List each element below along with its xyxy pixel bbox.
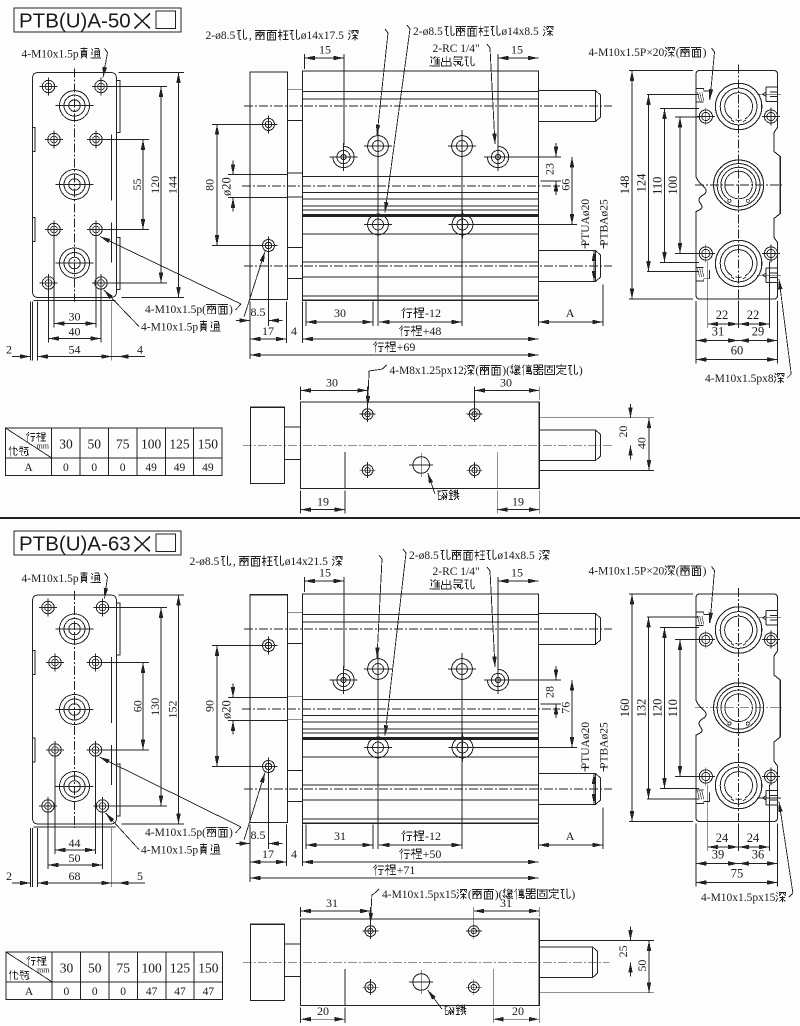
dim 17 bbox=[250, 338, 287, 340]
left edge tapped-hole notch bottom bbox=[696, 793, 709, 804]
svg-text:66: 66 bbox=[559, 179, 573, 191]
top rod centerline bbox=[244, 628, 612, 630]
dimension 144 bbox=[178, 73, 180, 298]
bottom rod centerline bbox=[244, 788, 612, 790]
svg-text:ø14x8.5: ø14x8.5 bbox=[497, 550, 535, 562]
dim 31 bbox=[305, 824, 307, 849]
svg-text:): ) bbox=[579, 365, 583, 377]
svg-text:2-ø8.5: 2-ø8.5 bbox=[413, 26, 443, 38]
svg-text:15: 15 bbox=[511, 43, 523, 57]
dimension 40 bbox=[49, 338, 102, 340]
svg-text:0: 0 bbox=[63, 462, 69, 474]
rod dia labels PTUA/PTBA bbox=[580, 199, 592, 247]
left edge tapped-hole notch top bbox=[696, 612, 709, 623]
dim A bbox=[539, 321, 604, 323]
bolt holes row3 bbox=[49, 744, 61, 756]
svg-text:0: 0 bbox=[120, 462, 126, 474]
svg-text:5: 5 bbox=[137, 869, 143, 883]
dim 15 left bbox=[304, 54, 306, 69]
cylinder body side view outline bbox=[303, 594, 539, 823]
svg-text:A: A bbox=[24, 462, 33, 474]
svg-text:24: 24 bbox=[747, 831, 760, 845]
svg-text:0: 0 bbox=[120, 986, 126, 998]
end view outline bbox=[696, 594, 780, 822]
dim 28 bbox=[508, 679, 561, 681]
cylinder body side view outline bbox=[303, 71, 539, 300]
body horizontal lines bbox=[303, 91, 539, 93]
stroke code table bbox=[6, 952, 223, 999]
bottom piston rod bbox=[539, 774, 601, 805]
plan view neck bbox=[285, 944, 301, 977]
bottom extension lines bbox=[53, 239, 55, 328]
bore top bbox=[715, 83, 761, 129]
dimension 60 bbox=[142, 663, 144, 751]
bottom dims of end view bbox=[707, 262, 709, 329]
svg-text:4-M10x1.5p(: 4-M10x1.5p( bbox=[145, 827, 206, 839]
plate bottom second edge bbox=[34, 826, 116, 828]
svg-text:124: 124 bbox=[634, 173, 648, 193]
dim 66 bbox=[473, 224, 578, 226]
right dims 20/40 or 25/50 bbox=[539, 940, 654, 942]
hole row1 counterbored holes bbox=[333, 669, 354, 690]
svg-text:PTBAø25: PTBAø25 bbox=[599, 722, 611, 769]
dimension 130 bbox=[160, 608, 162, 807]
dim A bbox=[539, 844, 604, 846]
svg-text:150: 150 bbox=[198, 961, 219, 976]
svg-text:23: 23 bbox=[543, 163, 557, 175]
stroke code table bbox=[6, 428, 223, 475]
svg-text:60: 60 bbox=[731, 344, 744, 358]
svg-text:ø14x8.5: ø14x8.5 bbox=[501, 26, 539, 38]
bolt holes row3 bbox=[48, 223, 60, 235]
svg-text:30: 30 bbox=[334, 306, 346, 320]
dim 行程+50 bbox=[303, 861, 539, 863]
stroke marker lines bbox=[344, 452, 346, 489]
dimension 4 right lip bbox=[118, 356, 145, 358]
bore bottom bbox=[715, 762, 761, 808]
hole row2 holes bbox=[368, 737, 389, 758]
vertical dims 148/124/110/100 bbox=[629, 593, 693, 595]
svg-text:15: 15 bbox=[511, 566, 523, 580]
dimension 54 bbox=[38, 356, 112, 358]
svg-text:ø20: ø20 bbox=[219, 177, 233, 196]
title multiplication sign bbox=[135, 537, 151, 552]
dim 15 right bbox=[498, 580, 539, 582]
dimension 2 left lip bbox=[12, 356, 31, 358]
svg-text:17: 17 bbox=[262, 324, 274, 338]
plan view rod bbox=[539, 430, 600, 461]
svg-text:4-M10x1.5p(: 4-M10x1.5p( bbox=[145, 304, 206, 316]
svg-text:40: 40 bbox=[635, 437, 649, 449]
svg-text:A: A bbox=[25, 986, 34, 998]
svg-text:50: 50 bbox=[88, 961, 102, 976]
flange bolt holes bbox=[263, 118, 275, 130]
plate right-edge inner tabs bbox=[111, 657, 113, 723]
svg-text:0: 0 bbox=[92, 986, 98, 998]
svg-text:30: 30 bbox=[59, 437, 73, 452]
plan view neck bbox=[285, 427, 301, 460]
right edge tapped slot top bbox=[766, 610, 778, 612]
guide rail thick line bbox=[303, 214, 539, 217]
guide rod stubs between flange and body bbox=[288, 613, 303, 644]
svg-text:8.5: 8.5 bbox=[251, 828, 266, 842]
svg-text:75: 75 bbox=[731, 867, 744, 881]
svg-text:19: 19 bbox=[512, 495, 524, 509]
dimension 44 bbox=[55, 849, 96, 851]
svg-text:): ) bbox=[229, 304, 233, 316]
dim dia20 piston rod bbox=[232, 161, 234, 175]
corner tapped holes bbox=[699, 633, 712, 646]
dimension 68 bbox=[38, 882, 112, 884]
svg-text:120: 120 bbox=[148, 176, 162, 194]
svg-text:2-RC 1/4": 2-RC 1/4" bbox=[433, 43, 480, 55]
dimension 120 bbox=[160, 87, 162, 284]
bottom dims 19/19 or 20/20 bbox=[300, 491, 302, 514]
svg-text:+48: +48 bbox=[423, 324, 442, 338]
body horizontal lines bbox=[303, 614, 539, 616]
guide rail thick line bbox=[303, 737, 539, 740]
svg-text:ø14x17.5: ø14x17.5 bbox=[301, 30, 344, 42]
svg-text:25: 25 bbox=[616, 945, 630, 957]
extension lines for vertical dims bbox=[103, 139, 149, 141]
svg-text:2-ø8.5: 2-ø8.5 bbox=[206, 30, 236, 42]
svg-text:30: 30 bbox=[500, 375, 512, 389]
svg-text:2-ø8.5: 2-ø8.5 bbox=[409, 550, 439, 562]
svg-text:125: 125 bbox=[169, 437, 190, 452]
plan view body bbox=[301, 919, 540, 1006]
dimension 5 right lip bbox=[118, 882, 145, 884]
svg-text:20: 20 bbox=[317, 1004, 329, 1018]
svg-text:30: 30 bbox=[326, 375, 338, 389]
svg-text:+50: +50 bbox=[423, 847, 442, 861]
bore middle bbox=[714, 160, 764, 210]
vertical centerline bbox=[738, 65, 740, 306]
magnet label bbox=[437, 490, 447, 499]
svg-text:mm: mm bbox=[37, 442, 50, 451]
svg-text:4-M10x1.5p: 4-M10x1.5p bbox=[22, 573, 79, 585]
svg-text:31: 31 bbox=[334, 829, 346, 843]
svg-text:47: 47 bbox=[146, 986, 158, 998]
svg-text:4-M10x1.5p: 4-M10x1.5p bbox=[141, 845, 198, 857]
dim 17 bbox=[250, 861, 287, 863]
svg-text:152: 152 bbox=[166, 701, 180, 719]
main centerline bbox=[242, 185, 560, 187]
table diagonal bbox=[6, 952, 52, 982]
svg-text:144: 144 bbox=[166, 176, 180, 194]
dim 行程+71 bbox=[250, 877, 539, 879]
svg-text:50: 50 bbox=[88, 437, 102, 452]
magnet hole bbox=[413, 457, 430, 474]
svg-text:90: 90 bbox=[203, 700, 217, 712]
svg-text:4-M10x1.5P×20: 4-M10x1.5P×20 bbox=[589, 47, 665, 59]
plan view centerline bbox=[243, 961, 610, 963]
bore bottom bbox=[715, 240, 761, 286]
svg-text:100: 100 bbox=[142, 961, 163, 976]
svg-text:15: 15 bbox=[319, 43, 331, 57]
left-edge notches bbox=[33, 128, 36, 152]
title box bbox=[14, 8, 181, 32]
svg-text:): ) bbox=[229, 827, 233, 839]
top dims 30/30 or 31/31 bbox=[300, 386, 302, 400]
svg-text:110: 110 bbox=[650, 177, 664, 195]
svg-text:(: ( bbox=[676, 566, 680, 578]
magnet hole bbox=[413, 974, 430, 991]
vertical dims 148/124/110/100 bbox=[629, 70, 693, 72]
svg-text:130: 130 bbox=[148, 698, 162, 716]
svg-text:(: ( bbox=[676, 47, 680, 59]
svg-text:+69: +69 bbox=[397, 340, 416, 354]
big guide-rod holes bbox=[60, 91, 90, 121]
svg-text:(: ( bbox=[468, 889, 472, 901]
bottom dims of end view bbox=[707, 785, 709, 852]
svg-text:4-M10x1.5P×20: 4-M10x1.5P×20 bbox=[589, 566, 665, 578]
vertical centerline bbox=[738, 588, 740, 828]
svg-text:4-M8x1.25px12: 4-M8x1.25px12 bbox=[390, 365, 465, 377]
title box bbox=[14, 531, 181, 555]
top piston rod bbox=[539, 614, 601, 645]
end flange plate bbox=[250, 72, 288, 300]
svg-text:4-M10x1.5px15: 4-M10x1.5px15 bbox=[701, 892, 776, 904]
svg-text:68: 68 bbox=[69, 869, 81, 883]
bottom dims 19/19 or 20/20 bbox=[300, 1008, 302, 1024]
svg-text:76: 76 bbox=[559, 702, 573, 714]
hole center extension lines bbox=[377, 653, 379, 849]
svg-text:)(: )( bbox=[495, 889, 503, 901]
bolt holes row2 bbox=[48, 133, 60, 145]
hole row1 plain holes bbox=[368, 136, 389, 157]
dim 8.5 bbox=[236, 843, 250, 845]
stroke marker lines bbox=[344, 969, 346, 1006]
dim stroke-12 bbox=[379, 844, 462, 846]
bottom extension lines bbox=[54, 759, 56, 854]
divider line bbox=[0, 517, 800, 519]
plan view centerline bbox=[243, 444, 612, 446]
svg-text:110: 110 bbox=[666, 699, 680, 717]
front-plate view outline bbox=[33, 73, 117, 298]
bottom piston rod bbox=[539, 251, 601, 282]
svg-text:30: 30 bbox=[69, 310, 81, 324]
main centerline bbox=[242, 708, 560, 710]
svg-text:100: 100 bbox=[141, 437, 162, 452]
svg-text:PTUAø20: PTUAø20 bbox=[580, 722, 592, 770]
title blank square bbox=[156, 11, 176, 29]
svg-text:54: 54 bbox=[69, 343, 81, 357]
table diagonal bbox=[6, 428, 52, 458]
right edge tapped slot top bbox=[766, 86, 778, 88]
svg-text:60: 60 bbox=[130, 700, 144, 712]
guide rod stubs between flange and body bbox=[288, 90, 303, 121]
front-plate view outline bbox=[33, 595, 117, 824]
svg-text:75: 75 bbox=[116, 437, 130, 452]
svg-text:39: 39 bbox=[712, 848, 725, 862]
svg-text:2-RC 1/4": 2-RC 1/4" bbox=[433, 566, 480, 578]
svg-text:47: 47 bbox=[174, 986, 186, 998]
bottom dim extension lines bbox=[249, 824, 251, 882]
svg-text:A: A bbox=[566, 306, 575, 320]
plan view body bbox=[301, 402, 540, 489]
svg-text:44: 44 bbox=[69, 836, 81, 850]
top rod centerline bbox=[244, 105, 612, 107]
svg-text:8.5: 8.5 bbox=[251, 305, 266, 319]
dim 8.5 bbox=[236, 320, 250, 322]
svg-text:36: 36 bbox=[752, 848, 765, 862]
svg-text:29: 29 bbox=[752, 325, 765, 339]
dimension 152 bbox=[178, 595, 180, 824]
svg-text:PTUAø20: PTUAø20 bbox=[580, 199, 592, 247]
svg-text:150: 150 bbox=[198, 437, 219, 452]
svg-text:+71: +71 bbox=[397, 863, 416, 877]
svg-text:)(: )( bbox=[502, 365, 510, 377]
big guide-rod holes bbox=[60, 614, 90, 644]
magnet label bbox=[444, 1005, 454, 1014]
svg-text:19: 19 bbox=[317, 495, 329, 509]
svg-text:31: 31 bbox=[326, 896, 338, 910]
svg-text:49: 49 bbox=[145, 462, 157, 474]
svg-text:148: 148 bbox=[618, 175, 632, 194]
svg-text:31: 31 bbox=[712, 325, 725, 339]
bore top bbox=[715, 607, 761, 653]
svg-text:4-M10x1.5px8: 4-M10x1.5px8 bbox=[705, 373, 774, 385]
left edge tapped-hole notch top bbox=[696, 89, 709, 100]
svg-text:125: 125 bbox=[170, 961, 191, 976]
svg-text:0: 0 bbox=[91, 462, 97, 474]
svg-text:24: 24 bbox=[716, 831, 729, 845]
svg-text:4-M10x1.5px15: 4-M10x1.5px15 bbox=[382, 889, 457, 901]
svg-text:28: 28 bbox=[543, 686, 557, 698]
end view outline bbox=[696, 71, 780, 300]
dimension 50 bbox=[48, 864, 103, 866]
hole row1 plain holes bbox=[368, 659, 389, 680]
dim 15 right bbox=[498, 57, 539, 59]
svg-text:mm: mm bbox=[37, 966, 50, 975]
svg-text:2: 2 bbox=[6, 869, 12, 883]
svg-text:PTB(U)A-63: PTB(U)A-63 bbox=[19, 533, 131, 556]
svg-text:PTB(U)A-50: PTB(U)A-50 bbox=[19, 10, 131, 33]
piston rod edges ext (dia20) bbox=[228, 697, 288, 699]
svg-text:40: 40 bbox=[69, 325, 81, 339]
svg-text:20: 20 bbox=[512, 1004, 524, 1018]
svg-text:PTBAø25: PTBAø25 bbox=[599, 199, 611, 246]
bolt holes row4 bbox=[42, 800, 54, 812]
svg-text:47: 47 bbox=[203, 986, 215, 998]
right edge tapped slot bottom bbox=[766, 282, 778, 284]
dim 行程+69 bbox=[250, 354, 539, 356]
plate bottom second edge bbox=[34, 300, 116, 302]
bore middle bbox=[714, 683, 764, 733]
hole row1 counterbored holes bbox=[333, 146, 354, 167]
piston rod edges ext (dia20) bbox=[228, 174, 288, 176]
plate vertical centerline bbox=[74, 591, 76, 828]
svg-text:,: , bbox=[249, 30, 252, 42]
top piston rod bbox=[539, 91, 601, 122]
dimension 55 bbox=[142, 140, 144, 230]
svg-text:132: 132 bbox=[634, 699, 648, 718]
svg-text:49: 49 bbox=[174, 462, 186, 474]
dimension 30 bbox=[54, 323, 96, 325]
svg-text:30: 30 bbox=[60, 961, 74, 976]
svg-text:2-ø8.5: 2-ø8.5 bbox=[190, 556, 220, 568]
svg-text:120: 120 bbox=[650, 699, 664, 718]
svg-text:4-M10x1.5p: 4-M10x1.5p bbox=[22, 49, 79, 61]
svg-text:17: 17 bbox=[262, 847, 274, 861]
svg-text:4-M10x1.5p: 4-M10x1.5p bbox=[141, 322, 198, 334]
extension lines for vertical dims bbox=[103, 662, 150, 664]
svg-text:22: 22 bbox=[747, 308, 760, 322]
svg-text:-12: -12 bbox=[425, 829, 441, 843]
dim 15 left bbox=[304, 577, 306, 592]
plan view end cap bbox=[251, 924, 285, 1000]
svg-text:A: A bbox=[566, 829, 575, 843]
end flange plate bbox=[250, 595, 288, 823]
svg-text:50: 50 bbox=[69, 851, 81, 865]
svg-text:75: 75 bbox=[117, 961, 131, 976]
title blank square bbox=[156, 534, 176, 552]
svg-text:22: 22 bbox=[716, 308, 729, 322]
dim 90 flange holes bbox=[212, 645, 262, 647]
svg-text:): ) bbox=[571, 889, 575, 901]
plate right-edge inner tabs bbox=[111, 135, 113, 201]
dim 76 bbox=[473, 747, 578, 749]
bolt holes row1 bbox=[42, 601, 54, 613]
dim 23 bbox=[508, 156, 561, 158]
svg-text:4: 4 bbox=[291, 324, 297, 338]
cushion screw holes bbox=[362, 409, 373, 420]
dim 30 bbox=[305, 301, 307, 326]
svg-text:,: , bbox=[233, 556, 236, 568]
svg-text:): ) bbox=[703, 47, 707, 59]
bolt holes row1 bbox=[42, 80, 54, 92]
left edge tapped-hole notch bottom bbox=[696, 270, 709, 281]
svg-text:ø20: ø20 bbox=[219, 700, 233, 719]
table header texts bbox=[26, 432, 35, 441]
svg-text:100: 100 bbox=[666, 176, 680, 195]
bolt holes row2 bbox=[49, 656, 61, 668]
svg-text:-12: -12 bbox=[425, 306, 441, 320]
svg-text:): ) bbox=[703, 566, 707, 578]
bottom dim extension lines bbox=[249, 301, 251, 359]
hole center extension lines bbox=[377, 130, 379, 326]
svg-text:49: 49 bbox=[202, 462, 214, 474]
plan view end cap bbox=[251, 407, 285, 483]
bottom rod centerline bbox=[244, 265, 612, 267]
dim stroke-12 bbox=[379, 321, 462, 323]
svg-text:4: 4 bbox=[137, 343, 143, 357]
dim 行程+48 bbox=[303, 338, 539, 340]
svg-text:4: 4 bbox=[291, 847, 297, 861]
right edge tapped slot bottom bbox=[766, 804, 778, 806]
dim 4 bbox=[273, 861, 287, 863]
dim 4 bbox=[273, 338, 287, 340]
svg-text:160: 160 bbox=[618, 698, 632, 717]
corner tapped holes bbox=[699, 110, 712, 123]
svg-text:20: 20 bbox=[616, 426, 630, 438]
flange bolt holes bbox=[263, 640, 275, 652]
svg-text:(: ( bbox=[475, 365, 479, 377]
top dims 30/30 or 31/31 bbox=[300, 907, 302, 917]
cushion screw holes bbox=[365, 926, 376, 937]
svg-text:55: 55 bbox=[130, 179, 144, 191]
hole row2 holes bbox=[368, 214, 389, 235]
svg-text:50: 50 bbox=[635, 960, 649, 972]
rod dia labels PTUA/PTBA bbox=[580, 722, 592, 770]
plate vertical centerline bbox=[74, 69, 76, 302]
right dims 20/40 or 25/50 bbox=[539, 417, 654, 419]
plan view rod bbox=[539, 947, 597, 978]
dim 80 flange holes bbox=[212, 123, 262, 125]
svg-text:0: 0 bbox=[64, 986, 70, 998]
title multiplication sign bbox=[135, 14, 151, 29]
svg-text:80: 80 bbox=[203, 179, 217, 191]
